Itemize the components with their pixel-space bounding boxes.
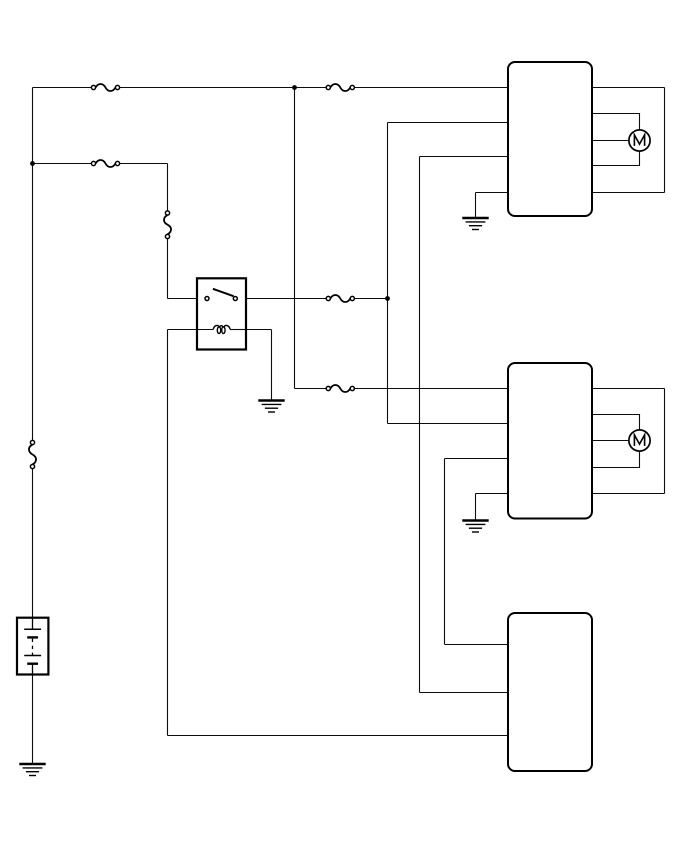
wire: motor1 bracket bottom <box>508 151 640 165</box>
fuse F7 (vertical, x=32.5) <box>29 440 36 468</box>
wire: box U2 input H9 (y=458.5) <box>445 458 509 460</box>
wire: relay coil right lead H12 to ground G3 <box>246 329 272 331</box>
wire: box U1 ground lead H7 / motor1 loop bottom (y=192.5) <box>476 192 665 194</box>
wire: vertical V2 down to relay switch (x=167.5) <box>167 164 169 214</box>
wire: vertical V1 battery positive (x=32.5) <box>32 88 34 443</box>
relay coil L1 <box>213 325 230 333</box>
wire: vertical V5 (x=419.5) <box>419 157 421 693</box>
ground G1 (box U1) <box>462 218 488 230</box>
battery plate + (cell 1) <box>24 628 41 630</box>
battery BT1 <box>17 618 48 675</box>
wire: vertical V3 from node A down to motor2 feed (x=294.5) <box>294 88 296 389</box>
wire: motor2 feed H4 (y=388.5) with gap for fuse F5, continues as loop top <box>295 388 329 390</box>
wire: box U1 input H5 (y=122.5) <box>388 122 509 124</box>
wire: motor1 bracket top <box>508 114 640 130</box>
wire: motor1 middle lead <box>508 140 629 142</box>
node C junction dot (387.5,298.5) <box>385 296 390 301</box>
fuse F4 <box>326 295 354 302</box>
motor M1 <box>629 130 650 151</box>
wire: relay switch output H3 (y=298.5) with gap for fuse F4 <box>246 298 328 300</box>
wire: relay coil left lead H11 and vertical V2b down (x=167.5) <box>168 329 198 331</box>
wire: battery negative to ground G0 <box>32 675 34 765</box>
node A junction dot (294.5,87.5) <box>292 85 297 90</box>
wire: box U3 input H13 (y=644.5) <box>445 644 509 646</box>
wire: fused branch H2 (y=163.5) <box>33 163 94 165</box>
fuse F3 <box>91 160 119 167</box>
wire: vertical V6 (x=444.5) <box>444 459 446 645</box>
motor M2 <box>629 430 650 451</box>
battery plate - (cell 2) <box>27 663 38 665</box>
wire: motor2 loop right edge <box>664 389 666 494</box>
wire: motor1 loop top and right edge <box>508 87 665 89</box>
relay switch contact left <box>205 297 209 301</box>
fuse F5 <box>326 385 354 392</box>
wire: box U2 ground lead H10 / motor2 loop bottom (y=493.5) <box>476 493 665 495</box>
wire: box U3 input H15 from relay coil (y=735.5) <box>168 735 509 737</box>
ground G0 (battery) <box>19 764 45 776</box>
module box U1 (top right) <box>508 62 592 216</box>
wire: motor2 bracket top <box>508 415 640 430</box>
module box U3 (bottom right) <box>508 613 592 771</box>
ground G3 (relay coil) <box>258 401 284 413</box>
wire: battery positive feed H1 (y=87.5) with gaps for fuses F1,F2 <box>33 87 94 89</box>
wire: box U2 input H8 (y=423.5) <box>388 423 509 425</box>
node B junction dot (32.5,163.5) <box>30 161 35 166</box>
battery plate - (cell 1) <box>27 636 38 638</box>
wire: box U3 input H14 (y=692.5) <box>420 692 509 694</box>
relay K1 <box>197 278 246 349</box>
module box U2 (middle right) <box>508 363 592 519</box>
battery dashed link <box>32 639 34 656</box>
wire: box U1 input H6 (y=156.5) <box>420 156 509 158</box>
wire: motor2 bracket bottom <box>508 451 640 467</box>
relay switch blade <box>213 289 234 296</box>
fuse F2 <box>326 84 354 91</box>
fuse F6 (vertical, x=167.5) <box>164 211 171 239</box>
fuse F1 <box>91 84 119 91</box>
ground G2 (box U2) <box>462 521 488 533</box>
battery plate + (cell 2) <box>24 655 41 657</box>
wire: motor2 middle lead <box>508 440 629 442</box>
relay switch contact right <box>233 297 237 301</box>
wire: vertical V4 (x=387.5) <box>387 123 389 424</box>
